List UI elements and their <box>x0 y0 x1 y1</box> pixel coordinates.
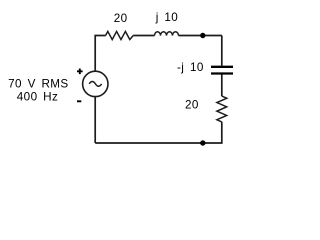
svg-text:70 V RMS: 70 V RMS <box>8 78 68 91</box>
wire: resistor to inductor <box>133 35 154 37</box>
wire: inductor to top-right corner <box>179 35 222 37</box>
node dot: top junction <box>200 33 205 38</box>
wire: resistor R2 to bottom-right corner and bottom wire <box>95 122 222 143</box>
wire: left vertical + top-left corner to resistor <box>95 36 106 72</box>
svg-text:-j 10: -j 10 <box>177 61 204 74</box>
resistor R2 (20 ohm, vertical) <box>217 96 227 122</box>
svg-text:20: 20 <box>185 98 199 111</box>
AC source V1 circle <box>83 71 108 96</box>
wire: capacitor to resistor R2 <box>221 74 223 96</box>
node dot: bottom junction <box>200 140 205 145</box>
wire: top-right corner down to capacitor <box>221 36 223 66</box>
capacitor C1 bottom plate <box>211 72 233 74</box>
svg-text:j 10: j 10 <box>155 11 179 24</box>
polarity minus sign <box>77 100 81 102</box>
svg-text:400 Hz: 400 Hz <box>17 91 58 104</box>
capacitor C1 (-j 10) top plate <box>211 66 233 68</box>
resistor R1 (20 ohm, horizontal) <box>106 31 134 39</box>
polarity plus sign <box>77 69 83 75</box>
svg-text:20: 20 <box>114 12 128 25</box>
wire: bottom-left up to source <box>94 96 96 143</box>
inductor L1 (j 10) <box>155 32 179 36</box>
AC source sine symbol <box>89 82 101 87</box>
